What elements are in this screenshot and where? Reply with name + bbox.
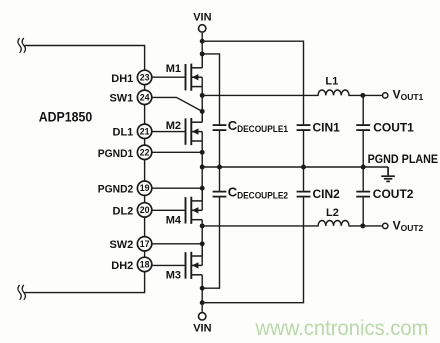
- svg-text:19: 19: [140, 183, 150, 193]
- wire VIN bottom to CDECOUPLE2 branch: [202, 197, 219, 288]
- wire left rail pin17-pin18: [144, 251, 146, 257]
- wire DH2 pin to M3 gate: [152, 264, 185, 266]
- svg-text:23: 23: [140, 72, 150, 82]
- inductor L1: [202, 90, 382, 95]
- node L1 to COUT1: [360, 93, 365, 98]
- wire M4 source to M3 drain (SW2 node): [201, 220, 203, 256]
- capacitor CIN2: [297, 192, 311, 197]
- terminal VOUT2: [383, 223, 388, 228]
- node SW1 (L1 tap): [200, 93, 205, 98]
- wire M3 source to VIN bottom: [201, 275, 203, 312]
- svg-text:M3: M3: [166, 270, 181, 282]
- pin circle DL2 20: [137, 203, 151, 217]
- svg-text:VIN: VIN: [193, 323, 211, 335]
- wire left rail pin21-pin22: [144, 139, 146, 146]
- svg-text:CIN2: CIN2: [313, 187, 341, 201]
- arrow M3 body: [192, 262, 198, 268]
- pin circle SW1 24: [137, 90, 151, 104]
- inductor L2: [202, 221, 382, 226]
- svg-text:COUT2: COUT2: [373, 187, 414, 201]
- wire CDECOUPLE1 bottom to PGND plane: [219, 131, 221, 191]
- pin circle PGND1 22: [137, 145, 151, 159]
- svg-text:www.cntronics.com: www.cntronics.com: [255, 317, 429, 340]
- wire bottom-left break wire to left rail: [25, 272, 145, 293]
- pin circle PGND2 19: [137, 181, 151, 195]
- wire DH1 pin to M1 gate: [152, 76, 185, 78]
- capacitor COUT2: [356, 192, 370, 197]
- svg-text:M1: M1: [166, 63, 181, 75]
- break symbol top-left: [18, 38, 26, 53]
- svg-text:COUT1: COUT1: [373, 120, 414, 134]
- node rail-PGND plane junction: [200, 165, 205, 170]
- svg-text:L1: L1: [325, 75, 338, 87]
- svg-text:M2: M2: [166, 120, 181, 132]
- transistor M2: [186, 111, 203, 145]
- wire DL1 pin to M2 gate: [152, 131, 185, 133]
- svg-text:SW1: SW1: [109, 93, 133, 105]
- transistor M3: [186, 244, 203, 279]
- svg-text:PGND2: PGND2: [98, 184, 134, 196]
- wire PGND plane: [202, 166, 388, 168]
- node CDECOUPLE rail on PGND plane: [217, 165, 222, 170]
- wire top-left break wire to left rail: [25, 46, 145, 71]
- capacitor COUT1: [356, 125, 370, 130]
- svg-text:PGND PLANE: PGND PLANE: [368, 152, 439, 166]
- svg-text:SW2: SW2: [109, 239, 133, 251]
- wire VIN top to CIN1 branch: [202, 41, 303, 124]
- wire SW2 pin to rail: [152, 243, 202, 245]
- wire VIN top to CDECOUPLE1 branch: [202, 54, 219, 125]
- arrow M4 body: [192, 207, 198, 213]
- svg-text:24: 24: [140, 92, 150, 102]
- wire left rail pin24-pin21: [144, 105, 146, 125]
- svg-text:17: 17: [140, 239, 150, 249]
- node VIN bottom junction to CIN2: [200, 300, 205, 305]
- node VIN bottom junction to CDECOUPLE2: [200, 286, 205, 291]
- wire M1 source to M2 drain (SW1 node): [201, 87, 203, 123]
- wire DL2 pin to M4 gate: [152, 209, 185, 211]
- capacitor CDECOUPLE2: [213, 192, 227, 197]
- pin circle DL1 21: [137, 124, 151, 138]
- svg-text:DL1: DL1: [113, 127, 134, 139]
- svg-text:20: 20: [140, 205, 150, 215]
- transistor M1: [186, 54, 203, 91]
- transistor M4: [186, 188, 203, 224]
- svg-text:CIN1: CIN1: [313, 120, 341, 134]
- svg-text:DH2: DH2: [111, 260, 133, 272]
- wire left rail pin23-pin24: [144, 85, 146, 91]
- capacitor CDECOUPLE1: [213, 125, 227, 130]
- svg-text:DH1: DH1: [111, 73, 133, 85]
- terminal VOUT1: [383, 93, 388, 98]
- node SW1 pin junction: [200, 109, 205, 114]
- wire left rail pin22-pin19: [144, 160, 146, 182]
- wire SW1 pin diagonal to switch node: [152, 97, 202, 111]
- wire left rail pin20-pin17: [144, 217, 146, 237]
- svg-text:22: 22: [140, 147, 150, 157]
- pin circle DH2 18: [137, 257, 151, 271]
- svg-text:VIN: VIN: [193, 11, 211, 23]
- node VIN top junction to CDECOUPLE1: [200, 51, 205, 56]
- wire VIN bottom to CIN2 branch: [202, 197, 303, 302]
- arrow M2 body: [192, 128, 198, 134]
- wire main rail VIN to M1 drain: [201, 41, 203, 68]
- node L2 to COUT2: [360, 223, 365, 228]
- svg-text:18: 18: [140, 259, 150, 269]
- node SW2 (L2 tap): [200, 223, 205, 228]
- node PGND1: [200, 150, 205, 155]
- pin circle DH1 23: [137, 70, 151, 84]
- svg-text:ADP1850: ADP1850: [39, 110, 92, 125]
- break symbol bottom-left: [18, 285, 26, 300]
- terminal VIN bottom: [199, 313, 206, 320]
- svg-text:L2: L2: [326, 207, 339, 219]
- wire M2 source to M4 drain through PGND nodes: [201, 141, 203, 201]
- wire PGND2 pin to rail: [152, 187, 202, 189]
- wire left rail pin19-pin20: [144, 195, 146, 202]
- node COUT rail on PGND plane: [361, 165, 366, 170]
- node CIN rail on PGND plane: [301, 165, 306, 170]
- svg-text:21: 21: [140, 126, 150, 136]
- svg-text:DL2: DL2: [113, 205, 134, 217]
- capacitor CIN1: [297, 125, 311, 130]
- wire COUT1 bottom to COUT2 top: [362, 131, 364, 191]
- ground PGND plane symbol: [381, 167, 395, 181]
- terminal VIN top: [199, 25, 206, 32]
- arrow M1 body: [192, 74, 198, 80]
- wire PGND1 pin to rail: [152, 151, 202, 153]
- pin circle SW2 17: [137, 237, 151, 251]
- wire CIN1 bottom to CIN2 top: [303, 131, 305, 191]
- svg-text:M4: M4: [166, 215, 182, 227]
- node SW2 pin junction: [200, 241, 205, 246]
- wire COUT1 top lead: [362, 95, 364, 124]
- svg-text:PGND1: PGND1: [98, 148, 134, 160]
- wire COUT2 bottom lead: [362, 197, 364, 226]
- wire VIN top stub: [201, 33, 203, 41]
- node PGND2: [200, 186, 205, 191]
- node VIN top junction to CIN1: [200, 39, 205, 44]
